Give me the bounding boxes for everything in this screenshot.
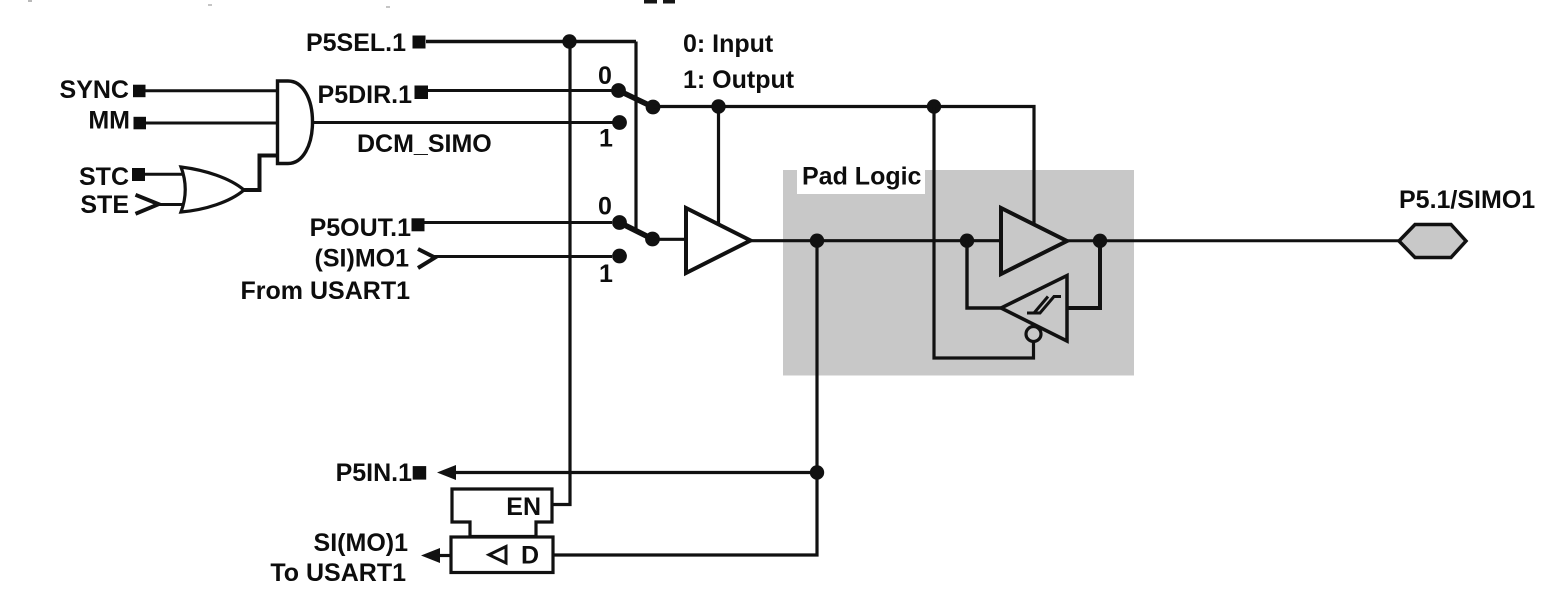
- wire schmitt enable path: [934, 107, 1034, 359]
- wire OR to AND staircase: [244, 156, 277, 191]
- clock triangle in D latch: [489, 547, 506, 564]
- wire buffer1 enable drop: [717, 107, 720, 225]
- D latch box: [451, 537, 553, 573]
- svg-text:From USART1: From USART1: [241, 277, 411, 305]
- switch mux2 contact 0: [612, 215, 627, 230]
- node junction schmitt output: [960, 234, 974, 248]
- switch mux1 bar: [619, 91, 654, 108]
- svg-text:P5DIR.1: P5DIR.1: [318, 81, 413, 109]
- wire P5SEL.1 horizontal: [426, 40, 636, 43]
- wire mux2 output: [653, 238, 691, 241]
- svg-text:STC: STC: [79, 163, 129, 191]
- wire STC: [145, 173, 186, 176]
- svg-text:0: Input: 0: Input: [683, 30, 774, 58]
- schmitt output wire: [967, 241, 1001, 308]
- svg-text:0: 0: [598, 193, 612, 221]
- switch mux2 wiper node: [645, 232, 660, 247]
- switch mux2 bar: [620, 223, 653, 240]
- pad hexagon P5.1/SIMO1: [1399, 225, 1466, 258]
- switch mux1 contact 0: [611, 83, 626, 98]
- wire STE: [156, 203, 186, 206]
- output driver buffer2 (pad): [1001, 208, 1067, 274]
- node junction pad side: [1093, 234, 1107, 248]
- svg-text:P5.1/SIMO1: P5.1/SIMO1: [1399, 186, 1535, 214]
- svg-text:1: 1: [599, 260, 613, 288]
- node junction buffer1 enable: [711, 99, 725, 113]
- node junction schmitt enable: [927, 99, 941, 113]
- schmitt enable bubble: [1026, 327, 1041, 342]
- wire P5OUT.1: [425, 221, 613, 224]
- switch mux1 contact 1: [612, 115, 627, 130]
- wire P5SEL vertical to EN box: [552, 42, 570, 505]
- svg-text:(SI)MO1: (SI)MO1: [315, 245, 410, 273]
- wire DCM_SIMO (AND output): [313, 121, 613, 124]
- svg-text:SYNC: SYNC: [60, 76, 129, 104]
- svg-text:1: Output: 1: Output: [683, 66, 795, 94]
- svg-text:SI(MO)1: SI(MO)1: [314, 529, 409, 557]
- svg-text:0: 0: [598, 62, 612, 90]
- svg-text:STE: STE: [80, 191, 129, 219]
- svg-text:P5SEL.1: P5SEL.1: [306, 29, 406, 57]
- schmitt hysteresis symbol: [1027, 297, 1061, 314]
- clipped page text fragment (top descenders): [644, 0, 657, 4]
- buffer driver1: [686, 208, 751, 273]
- schmitt trigger input buffer: [1001, 276, 1067, 342]
- svg-text:DCM_SIMO: DCM_SIMO: [357, 130, 492, 158]
- svg-text:P5OUT.1: P5OUT.1: [310, 214, 412, 242]
- svg-text:MM: MM: [88, 107, 130, 135]
- svg-text:To USART1: To USART1: [270, 559, 406, 587]
- switch mux1 wiper node: [646, 100, 661, 115]
- node junction P5IN tap: [810, 465, 824, 479]
- svg-text:EN: EN: [506, 493, 541, 521]
- arrowhead P5IN.1: [437, 465, 456, 480]
- svg-text:Pad Logic: Pad Logic: [802, 163, 922, 191]
- wire D latch output: [437, 554, 452, 557]
- wire P5SEL vertical through switches: [634, 42, 637, 233]
- schmitt input wire: [1067, 241, 1100, 308]
- wire main output line (left of pad driver): [750, 239, 1002, 242]
- Pad Logic region box: [783, 170, 1134, 376]
- wire main output line (right of pad driver): [1066, 239, 1399, 242]
- svg-text:P5IN.1: P5IN.1: [336, 459, 413, 487]
- node junction on P5SEL.1: [562, 34, 576, 48]
- or gate: [181, 167, 244, 212]
- wire pad feedback vertical to P5IN and D latch: [553, 241, 817, 555]
- wire mux1 output to pad-driver enables: [653, 107, 1034, 225]
- svg-text:1: 1: [599, 125, 613, 153]
- node junction main line / feedback: [810, 234, 824, 248]
- wire (SI)MO1: [434, 255, 612, 258]
- arrowhead SI(MO)1: [421, 548, 440, 563]
- wire MM: [146, 122, 278, 125]
- EN latch box: [452, 489, 552, 537]
- wire P5DIR.1: [428, 89, 612, 92]
- switch mux2 contact 1: [612, 249, 627, 264]
- wire SYNC: [145, 89, 278, 92]
- and gate: [278, 81, 313, 164]
- svg-text:D: D: [521, 542, 539, 570]
- wire P5IN.1: [450, 471, 817, 474]
